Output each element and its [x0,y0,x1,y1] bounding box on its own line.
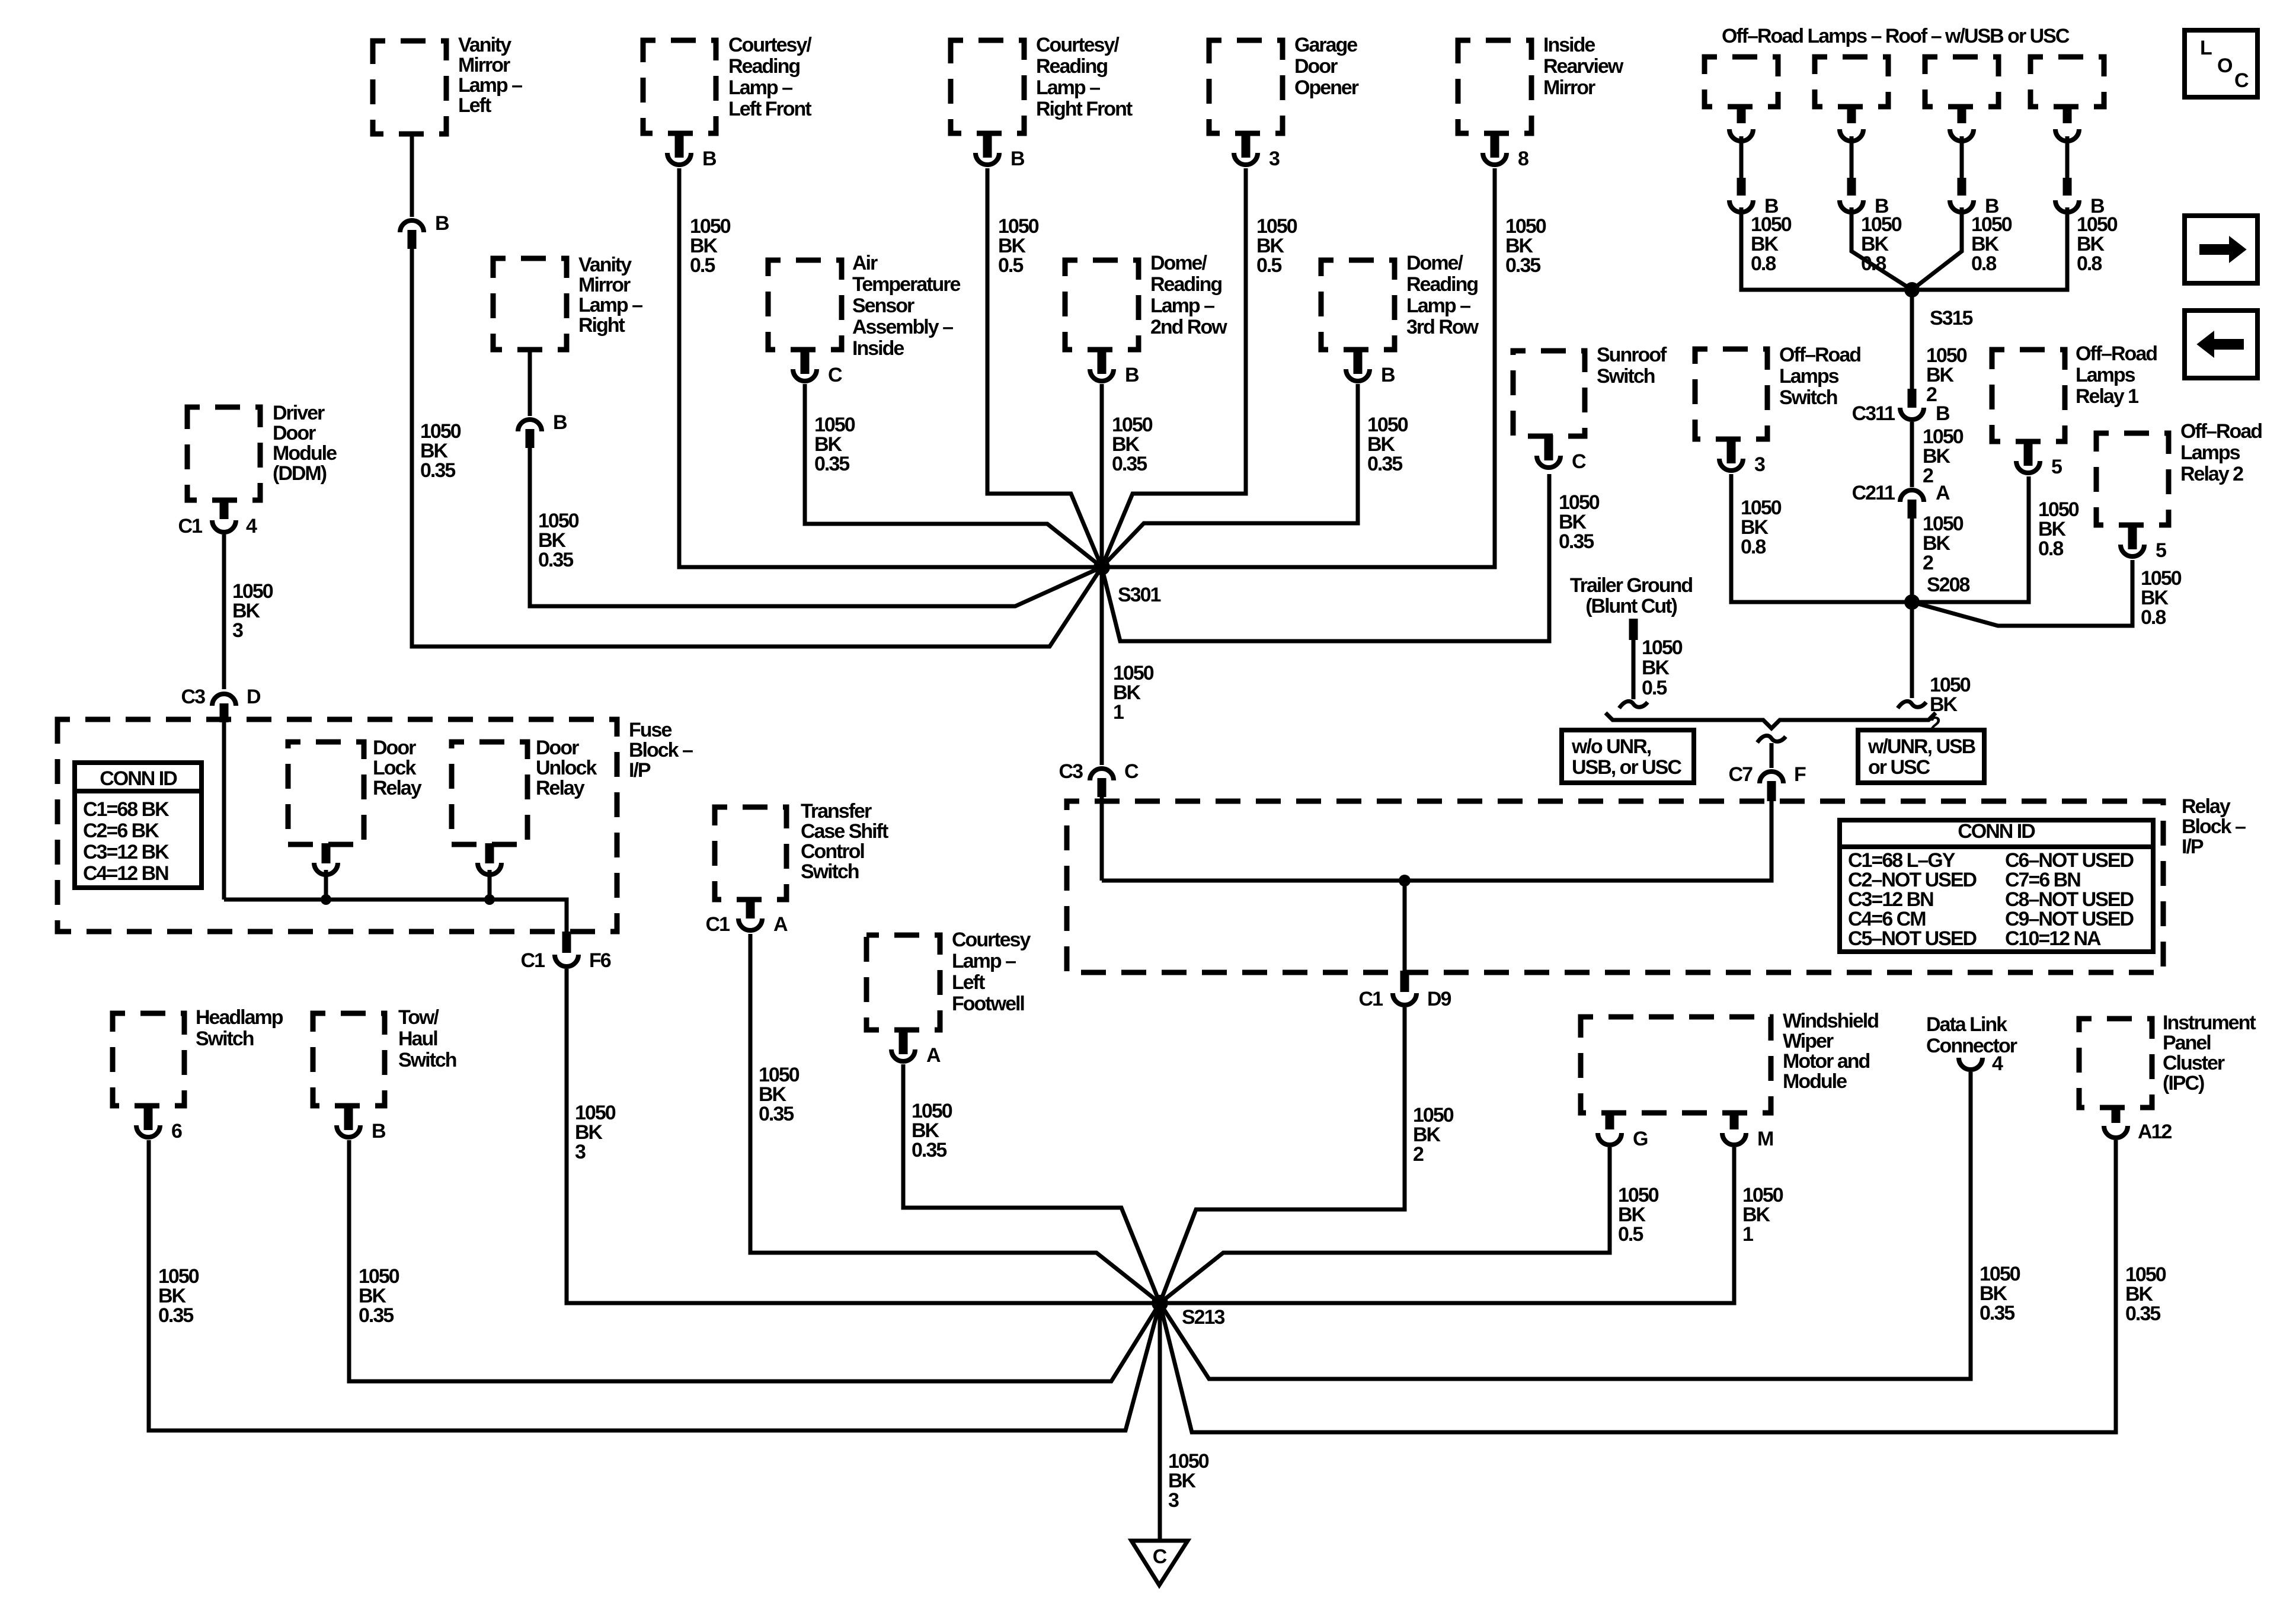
component box: Courtesy Lamp - Left Footwell, connector A [866,929,1031,1067]
svg-text:Lamp –: Lamp – [1406,295,1470,317]
svg-text:C3: C3 [1059,760,1083,783]
svg-text:Vanity: Vanity [458,34,511,56]
svg-text:B: B [1011,148,1025,170]
w/UNR USB or USC option box [1858,730,1984,783]
svg-text:Mirror: Mirror [1543,76,1595,99]
svg-text:Sunroof: Sunroof [1597,344,1667,366]
svg-text:0.35: 0.35 [1980,1302,2014,1324]
svg-text:Right Front: Right Front [1036,98,1133,120]
wire from branch dot down to C1-D9 [1403,881,1407,972]
svg-text:Door: Door [373,737,416,759]
svg-text:Inside: Inside [852,337,904,360]
svg-text:C4=12 BN: C4=12 BN [83,862,168,885]
svg-text:Dome/: Dome/ [1150,252,1207,274]
component box: Garage Door Opener, connector pin 3 [1209,34,1359,170]
component box: Windshield Wiper Motor and Module, connectors G and M [1581,1010,1878,1150]
svg-text:Wiper: Wiper [1783,1030,1834,1052]
wire 1050 BK 0.8 from Off-Road Lamps Relay 2 to S208 [1912,560,2182,629]
wire 1050 BK 1 from S301 to C3-C [1102,567,1154,765]
svg-text:Reading: Reading [1036,55,1107,78]
component box: Courtesy/Reading Lamp - Left Front, connector B [643,34,812,170]
svg-text:Reading: Reading [1406,273,1478,296]
svg-text:0.35: 0.35 [912,1139,946,1161]
wire 1050 BK 0.35 from Tow/Haul Switch to S213 [349,1140,1160,1381]
svg-text:1: 1 [1742,1223,1753,1246]
wire 1050 BK 0.8 from Off-Road Lamps Relay 1 to S208 [1916,476,2079,602]
svg-text:0.35: 0.35 [158,1304,193,1327]
splice junction S315 [1904,282,1972,329]
svg-text:0.8: 0.8 [1751,252,1776,275]
svg-text:Panel: Panel [2163,1032,2211,1054]
svg-text:w/o UNR,: w/o UNR, [1571,735,1651,758]
svg-text:Fuse: Fuse [629,719,671,741]
wire 1050 BK 0.35 from Vanity Mirror Lamp Right to S301 [530,447,1102,606]
splice junction S301 [682,559,1495,606]
svg-text:Courtesy/: Courtesy/ [728,34,812,56]
wire 1050 BK 2 from S315 to C311-B [1912,290,1967,406]
svg-text:Lamp –: Lamp – [578,294,642,316]
svg-text:Relay 1: Relay 1 [2076,385,2138,408]
component box: Vanity Mirror Lamp - Left, connector B [373,34,522,249]
svg-text:Trailer Ground: Trailer Ground [1570,574,1692,597]
svg-text:B: B [553,411,567,434]
svg-text:5: 5 [2051,456,2062,478]
wire 1050 BK 0.35 from Data Link Connector to S213 [1160,1072,2020,1379]
svg-text:Dome/: Dome/ [1406,252,1463,274]
svg-text:B: B [1381,364,1395,386]
svg-text:Haul: Haul [398,1028,437,1050]
svg-text:Motor and: Motor and [1783,1050,1870,1073]
wire 1050 BK 0.8 off-road lamp 1 to S315 [1741,207,1910,290]
svg-text:0.5: 0.5 [1256,254,1281,277]
svg-text:Courtesy/: Courtesy/ [1036,34,1120,56]
svg-text:Footwell: Footwell [952,993,1024,1015]
component box: Off-Road Lamp 1 (roof), double in-line connectors, pin B [1705,57,1779,217]
svg-text:0.8: 0.8 [2038,537,2063,560]
svg-text:Lamp –: Lamp – [952,950,1016,972]
svg-text:USB, or USC: USB, or USC [1572,756,1681,779]
svg-text:2: 2 [1923,465,1933,487]
svg-text:0.35: 0.35 [420,459,455,482]
svg-text:Off–Road Lamps – Roof – w/USB: Off–Road Lamps – Roof – w/USB or USC [1722,25,2070,47]
svg-text:C: C [1572,450,1586,473]
CONN ID table (Fuse Block) [75,763,202,888]
svg-text:A: A [926,1044,941,1067]
svg-text:Lamp –: Lamp – [728,76,792,99]
wire-end hook above bracket (trailer ground side) [1619,701,1648,708]
svg-text:Case Shift: Case Shift [801,820,888,843]
svg-text:or USC: or USC [1868,756,1930,779]
wire 1050 BK 0.35 from Dome/Reading Lamp 3rd Row to S301 [1102,384,1408,567]
svg-text:C: C [1124,760,1139,783]
svg-text:Courtesy: Courtesy [952,929,1031,951]
svg-text:CONN ID: CONN ID [100,767,177,790]
wire 1050 BK 0.35 from Headlamp Switch to S213 [149,1140,1160,1430]
svg-text:Lamps: Lamps [2076,364,2135,386]
ground symbol C [1131,1541,1188,1585]
svg-text:0.35: 0.35 [814,453,849,475]
svg-text:Unlock: Unlock [536,757,597,779]
wire 1050 BK 3 from C1-F6 to S213 bus [567,969,1156,1303]
svg-text:Assembly –: Assembly – [852,316,953,338]
svg-text:4: 4 [1992,1052,2003,1075]
wire 1050 BK 0.8 off-road lamp 2 to S315 [1851,207,1912,290]
svg-text:B: B [702,148,717,170]
component box: Air Temperature Sensor Assembly - Inside, connector C [768,252,961,386]
Relay Block - I/P dashed enclosure [1067,795,2246,972]
wire 1050 BK 0.35 from Sunroof Switch to S301 [1102,474,1600,641]
svg-text:Switch: Switch [801,860,859,883]
wire 1050 BK 0.8 off-road lamp 3 to S315 [1912,207,2012,290]
left arrow reference box [2185,311,2257,378]
title: Off-Road Lamps - Roof - w/USB or USC [1722,25,2070,47]
wire 1050 BK 0.8 from Off-Road Lamps Switch to S208 [1731,474,1908,602]
svg-text:S213: S213 [1182,1306,1224,1329]
svg-text:S315: S315 [1930,307,1972,329]
svg-text:Switch: Switch [398,1049,456,1071]
svg-text:Mirror: Mirror [578,274,631,296]
svg-text:(IPC): (IPC) [2163,1072,2204,1094]
svg-text:CONN ID: CONN ID [1958,820,2035,843]
component box: Off-Road Lamps Switch, connector pin 3 [1695,344,1860,476]
component box: Vanity Mirror Lamp - Right, connector B [493,254,642,448]
wire 1050 BK 0.35 from Vanity Mirror Lamp Left to S301 [412,248,1102,647]
svg-text:Switch: Switch [1779,386,1837,409]
component box: Driver Door Module (DDM), connector C1 pin 4 [178,402,337,537]
svg-text:0.35: 0.35 [1112,453,1147,475]
svg-text:Temperature: Temperature [852,273,961,296]
svg-text:A: A [1936,482,1950,504]
w/o UNR USB or USC option box [1562,730,1694,783]
svg-text:5: 5 [2156,539,2166,562]
connector C1 cavity F6 below Fuse Block [521,932,611,972]
svg-text:2: 2 [1413,1143,1424,1166]
svg-text:w/UNR, USB: w/UNR, USB [1868,735,1976,758]
svg-text:C3: C3 [181,686,206,708]
component box: Inside Rearview Mirror, connector pin 8 [1458,34,1624,170]
component box: Off-Road Lamps Relay 1, connector pin 5 [1992,343,2157,478]
wire 1050 BK 0.35 from Courtesy Lamp Left Footwell to S213 [903,1064,1160,1303]
component box: Door Lock Relay [288,737,422,875]
svg-text:Relay 2: Relay 2 [2180,463,2243,485]
svg-text:C1: C1 [178,515,203,537]
svg-text:(DDM): (DDM) [273,462,327,485]
svg-text:0.35: 0.35 [759,1103,794,1125]
svg-text:Lock: Lock [373,757,416,779]
svg-text:C: C [1153,1545,1167,1568]
svg-text:Cluster: Cluster [2163,1052,2225,1074]
svg-text:C211: C211 [1852,482,1895,504]
svg-text:F: F [1794,763,1806,786]
inline connector C3 cavity D [181,686,261,722]
wire 1050 BK 0.5 from Courtesy/Reading Lamp Right Front to S301 [987,168,1102,567]
svg-text:Left: Left [952,971,985,994]
svg-text:Tow/: Tow/ [398,1006,439,1029]
Trailer Ground (Blunt Cut) stub [1570,574,1692,699]
wire 1050 BK 0.8 off-road lamp 4 to S315 [1916,207,2118,290]
svg-text:Data Link: Data Link [1926,1013,2007,1036]
connector C1 cavity D9 below Relay Block [1359,971,1451,1010]
fuse block internal bus wire [224,900,567,933]
svg-text:Windshield: Windshield [1783,1010,1878,1032]
svg-text:Door: Door [536,737,579,759]
svg-text:C5–NOT USED: C5–NOT USED [1848,927,1977,950]
component box: Door Unlock Relay [452,737,597,875]
component box: Dome/Reading Lamp - 2nd Row, connector B [1065,252,1227,386]
svg-text:3: 3 [1168,1489,1179,1512]
svg-text:0.35: 0.35 [1505,254,1540,277]
svg-text:S208: S208 [1927,574,1969,596]
svg-text:6: 6 [171,1120,182,1142]
component box: Transfer Case Shift Control Switch, connector C1 pin A [706,800,888,936]
svg-text:0.5: 0.5 [690,254,715,277]
svg-text:3rd Row: 3rd Row [1406,316,1479,338]
svg-text:0.35: 0.35 [1559,530,1594,553]
component box: Off-Road Lamps Relay 2, connector pin 5 [2096,420,2262,562]
svg-text:C1: C1 [1359,988,1383,1010]
inline connector C211 cavity A [1852,482,1950,519]
relay block internal wire C3-C to C7-F with branch [1102,801,1771,886]
svg-text:B: B [435,212,449,235]
LOC reference box [2185,30,2257,97]
wire Door Lock Relay to fuse block bus [321,870,331,905]
svg-text:Lamp –: Lamp – [1036,76,1100,99]
svg-text:C1: C1 [706,913,730,936]
svg-text:A12: A12 [2138,1121,2172,1143]
wire 1050 BK 2 from C311-B to C211-A [1912,422,1964,487]
svg-text:Left Front: Left Front [728,98,811,120]
component box: Sunroof Switch, connector C [1513,344,1667,473]
svg-text:BK: BK [1642,657,1670,679]
inline connector C3 cavity C at Relay Block [1059,760,1139,797]
wire 1050 BK 0.35 from IPC A12 to S213 [1160,1140,2166,1432]
svg-text:Transfer: Transfer [801,800,872,822]
svg-text:Module: Module [1783,1070,1847,1093]
svg-text:Connector: Connector [1926,1035,2017,1057]
svg-text:F6: F6 [589,949,611,972]
wire 1050 BK 3 from DDM C1-4 to C3-D [224,535,273,689]
svg-text:Relay: Relay [2182,795,2231,818]
Data Link Connector, connector pin 4 [1926,1013,2017,1075]
svg-text:Vanity: Vanity [578,254,632,276]
svg-text:Left: Left [458,94,491,117]
svg-text:4: 4 [246,515,257,537]
svg-text:0.35: 0.35 [2125,1302,2160,1325]
svg-text:S301: S301 [1118,584,1160,606]
wire 1050 BK 0.5 from wiper module pin G to S213 [1160,1147,1659,1303]
svg-text:O: O [2217,55,2233,77]
svg-text:C311: C311 [1852,402,1895,425]
svg-text:Switch: Switch [1597,365,1655,388]
options gathering bracket [1606,713,1936,728]
svg-text:C: C [828,364,842,386]
svg-text:0.35: 0.35 [359,1304,394,1327]
svg-text:8: 8 [1518,148,1528,170]
svg-text:C2=6 BK: C2=6 BK [83,820,159,842]
svg-text:B: B [1125,364,1139,386]
svg-text:I/P: I/P [629,759,651,782]
svg-text:0.35: 0.35 [538,549,573,571]
svg-text:M: M [1757,1128,1773,1150]
svg-text:Inside: Inside [1543,34,1595,56]
wire-end hook below bracket [1757,735,1786,743]
wire 1050 BK 0.35 from Inside Rearview Mirror to S301 [1104,168,1546,567]
svg-text:Right: Right [578,314,625,337]
svg-text:Reading: Reading [1150,273,1221,296]
svg-text:C: C [2234,69,2249,92]
svg-text:(Blunt Cut): (Blunt Cut) [1585,595,1677,617]
wire 1050 BK 0.5 from Courtesy/Reading Lamp Left Front to S301 [679,168,1099,567]
svg-text:Off–Road: Off–Road [2076,343,2157,365]
svg-text:Lamps: Lamps [1779,365,1839,388]
wire from bracket to C7-F [1770,743,1774,768]
svg-text:Driver: Driver [273,402,325,424]
svg-text:Door: Door [273,422,316,444]
svg-text:C1: C1 [521,949,545,972]
component box: Dome/Reading Lamp - 3rd Row, connector B [1321,252,1479,386]
right arrow reference box [2185,216,2257,283]
svg-text:Block –: Block – [2182,815,2246,838]
svg-text:Air: Air [852,252,878,274]
wire 1050 BK 2 from C211-A to S208 [1912,513,1964,602]
component box: Courtesy/Reading Lamp - Right Front, connector B [951,34,1133,170]
splice junction S208 [1904,574,1969,610]
svg-text:I/P: I/P [2182,836,2204,858]
svg-text:0.35: 0.35 [1367,453,1402,475]
wire 1050 BK 0.5 from Garage Door Opener to S301 [1102,168,1297,567]
svg-text:Garage: Garage [1294,34,1357,56]
svg-text:0.8: 0.8 [2141,606,2166,629]
svg-text:Reading: Reading [728,55,800,78]
svg-text:2: 2 [1923,552,1933,574]
svg-text:Switch: Switch [196,1028,254,1050]
Fuse Block - I/P dashed enclosure [57,719,693,932]
svg-text:D: D [247,686,261,708]
svg-text:0.8: 0.8 [2077,252,2102,275]
svg-text:Instrument: Instrument [2163,1012,2256,1034]
svg-text:3: 3 [1754,453,1765,476]
svg-text:B: B [372,1120,386,1142]
svg-text:Lamp –: Lamp – [1150,295,1214,317]
svg-text:0.5: 0.5 [1642,677,1667,699]
wire from C3-C down into Relay Block [1100,797,1104,881]
inline connector C7 cavity F at Relay Block [1729,763,1806,801]
svg-text:3: 3 [232,619,243,642]
svg-text:Lamps: Lamps [2180,441,2240,464]
wire 1050 BK 0.35 from Air Temperature Sensor to S301 [805,384,1102,567]
svg-text:Door: Door [1294,55,1338,78]
svg-text:3: 3 [575,1141,586,1163]
svg-text:Off–Road: Off–Road [1779,344,1860,366]
svg-text:Relay: Relay [536,777,585,799]
wire 1050 BK 0.35 from Dome/Reading Lamp 2nd Row to S301 [1102,384,1153,567]
component box: Headlamp Switch, connector pin 6 [113,1006,283,1142]
svg-text:1050: 1050 [1642,636,1683,659]
svg-text:L: L [2200,37,2212,59]
CONN ID table (Relay Block) [1840,820,2153,952]
svg-text:Control: Control [801,840,864,863]
svg-text:0.5: 0.5 [998,254,1023,277]
svg-text:C7: C7 [1729,763,1753,786]
svg-text:C10=12 NA: C10=12 NA [2005,927,2101,950]
wire 1050 BK 1 from wiper module pin M to S213 [1163,1147,1783,1303]
svg-text:Headlamp: Headlamp [196,1006,283,1029]
svg-text:0.8: 0.8 [1971,252,1996,275]
svg-text:Mirror: Mirror [458,54,510,76]
svg-text:2nd Row: 2nd Row [1150,316,1227,338]
svg-text:0.8: 0.8 [1861,252,1886,275]
svg-text:0.8: 0.8 [1741,536,1766,558]
wire from C3-D into Fuse Block [222,721,226,900]
svg-text:0.5: 0.5 [1618,1223,1643,1246]
component box: Instrument Panel Cluster (IPC), connector A12 [2079,1012,2256,1143]
svg-text:G: G [1633,1128,1648,1150]
svg-text:Opener: Opener [1294,76,1359,99]
wire-end hook above bracket (S208 side) [1898,701,1926,708]
svg-text:Off–Road: Off–Road [2180,420,2262,443]
component box: Off-Road Lamp 4 (roof), double in-line connectors, pin B [2030,57,2105,217]
component box: Off-Road Lamp 3 (roof), double in-line connectors, pin B [1925,57,1999,217]
wire Door Unlock Relay to fuse block bus [484,870,495,905]
component box: Tow/Haul Switch, connector B [313,1006,456,1142]
svg-text:Relay: Relay [373,777,422,799]
svg-text:C1=68 BK: C1=68 BK [83,798,170,821]
svg-text:D9: D9 [1427,988,1451,1010]
svg-text:B: B [1936,402,1950,425]
svg-text:Lamp –: Lamp – [458,74,522,97]
svg-text:1: 1 [1113,701,1124,724]
wire 1050 BK 3 from S213 to ground C [1160,1303,1209,1541]
inline connector C311 cavity B [1852,389,1950,425]
svg-text:3: 3 [1269,148,1280,170]
wire 1050 BK 0.35 from Transfer Case Switch to S213 [750,934,1160,1303]
wire 1050 BK 2 from S208 down to options bracket [1912,602,1971,735]
component box: Off-Road Lamp 2 (roof), double in-line connectors, pin B [1815,57,1889,217]
svg-text:Rearview: Rearview [1543,55,1624,78]
svg-text:Block –: Block – [629,739,693,761]
splice junction S213 [1152,1295,1224,1329]
svg-text:A: A [773,913,788,936]
svg-text:Sensor: Sensor [852,295,914,317]
wire 1050 BK 2 from C1-D9 to S213 [1160,1007,1454,1303]
svg-text:Module: Module [273,442,337,465]
svg-text:C3=12 BK: C3=12 BK [83,841,170,863]
